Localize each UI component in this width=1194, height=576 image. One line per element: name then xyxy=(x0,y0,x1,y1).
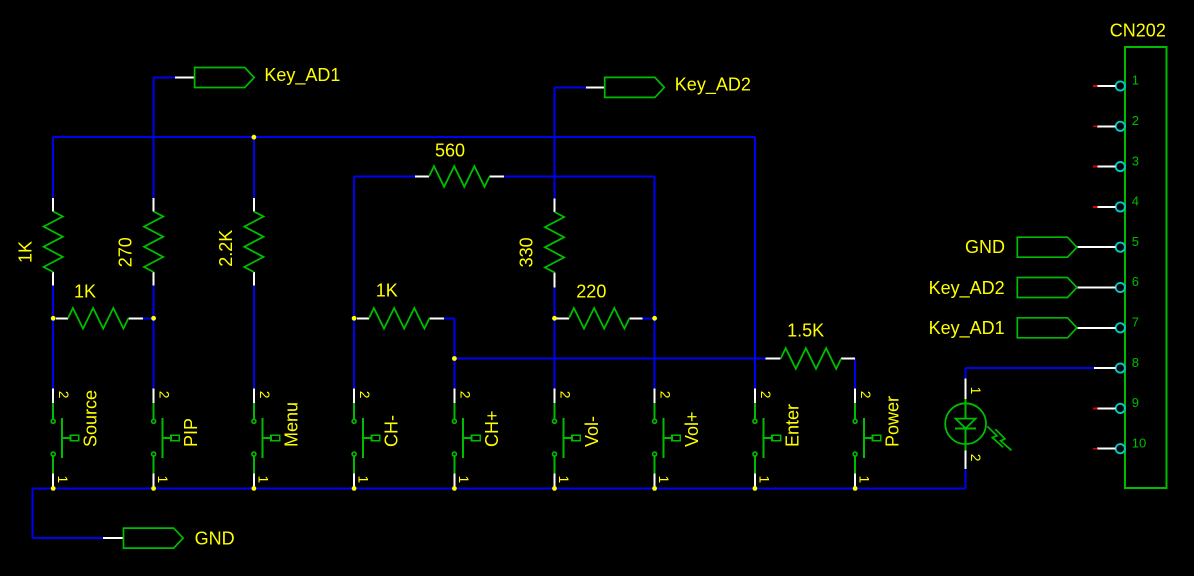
svg-text:1.5K: 1.5K xyxy=(787,320,824,340)
svg-text:2: 2 xyxy=(968,454,983,462)
svg-text:1K: 1K xyxy=(74,281,96,301)
svg-text:1: 1 xyxy=(556,476,571,484)
svg-text:330: 330 xyxy=(516,237,536,267)
svg-text:9: 9 xyxy=(1132,395,1139,410)
svg-text:2: 2 xyxy=(56,391,71,399)
svg-text:2: 2 xyxy=(457,391,472,399)
svg-text:3: 3 xyxy=(1132,153,1139,168)
svg-text:2: 2 xyxy=(858,391,873,399)
svg-text:1: 1 xyxy=(155,476,170,484)
svg-text:2: 2 xyxy=(758,391,773,399)
svg-text:8: 8 xyxy=(1132,355,1139,370)
svg-text:2.2K: 2.2K xyxy=(216,230,236,267)
svg-text:2: 2 xyxy=(257,391,272,399)
svg-text:2: 2 xyxy=(558,391,573,399)
svg-text:4: 4 xyxy=(1132,194,1139,209)
svg-text:PIP: PIP xyxy=(181,418,201,447)
svg-text:560: 560 xyxy=(435,140,465,160)
svg-text:1: 1 xyxy=(55,476,70,484)
svg-text:220: 220 xyxy=(576,282,606,302)
svg-text:5: 5 xyxy=(1132,234,1139,249)
svg-text:2: 2 xyxy=(357,391,372,399)
svg-text:2: 2 xyxy=(1132,113,1139,128)
svg-text:GND: GND xyxy=(195,528,235,548)
svg-text:1K: 1K xyxy=(376,281,398,301)
svg-text:7: 7 xyxy=(1132,315,1139,330)
svg-text:2: 2 xyxy=(157,391,172,399)
svg-text:GND: GND xyxy=(965,237,1005,257)
svg-text:1: 1 xyxy=(857,476,872,484)
svg-text:1: 1 xyxy=(1132,73,1139,88)
svg-text:1: 1 xyxy=(456,476,471,484)
svg-text:CH-: CH- xyxy=(382,415,402,447)
svg-text:1: 1 xyxy=(656,476,671,484)
svg-text:CN202: CN202 xyxy=(1110,20,1166,40)
svg-text:1: 1 xyxy=(356,476,371,484)
svg-text:Key_AD1: Key_AD1 xyxy=(264,65,340,86)
svg-text:1: 1 xyxy=(256,476,271,484)
svg-text:Key_AD1: Key_AD1 xyxy=(929,318,1005,339)
svg-text:Vol+: Vol+ xyxy=(682,411,702,447)
svg-text:Enter: Enter xyxy=(782,404,802,447)
svg-text:1: 1 xyxy=(757,476,772,484)
svg-text:CH+: CH+ xyxy=(482,410,502,447)
svg-text:Key_AD2: Key_AD2 xyxy=(675,75,751,96)
svg-text:Source: Source xyxy=(81,390,101,447)
svg-text:270: 270 xyxy=(116,237,136,267)
svg-text:1K: 1K xyxy=(15,241,35,263)
svg-text:6: 6 xyxy=(1132,274,1139,289)
svg-text:Vol-: Vol- xyxy=(582,416,602,447)
svg-text:2: 2 xyxy=(658,391,673,399)
svg-text:1: 1 xyxy=(968,387,983,395)
svg-text:10: 10 xyxy=(1132,435,1146,450)
svg-text:Menu: Menu xyxy=(281,402,301,447)
svg-text:Power: Power xyxy=(883,396,903,447)
svg-text:Key_AD2: Key_AD2 xyxy=(929,278,1005,299)
